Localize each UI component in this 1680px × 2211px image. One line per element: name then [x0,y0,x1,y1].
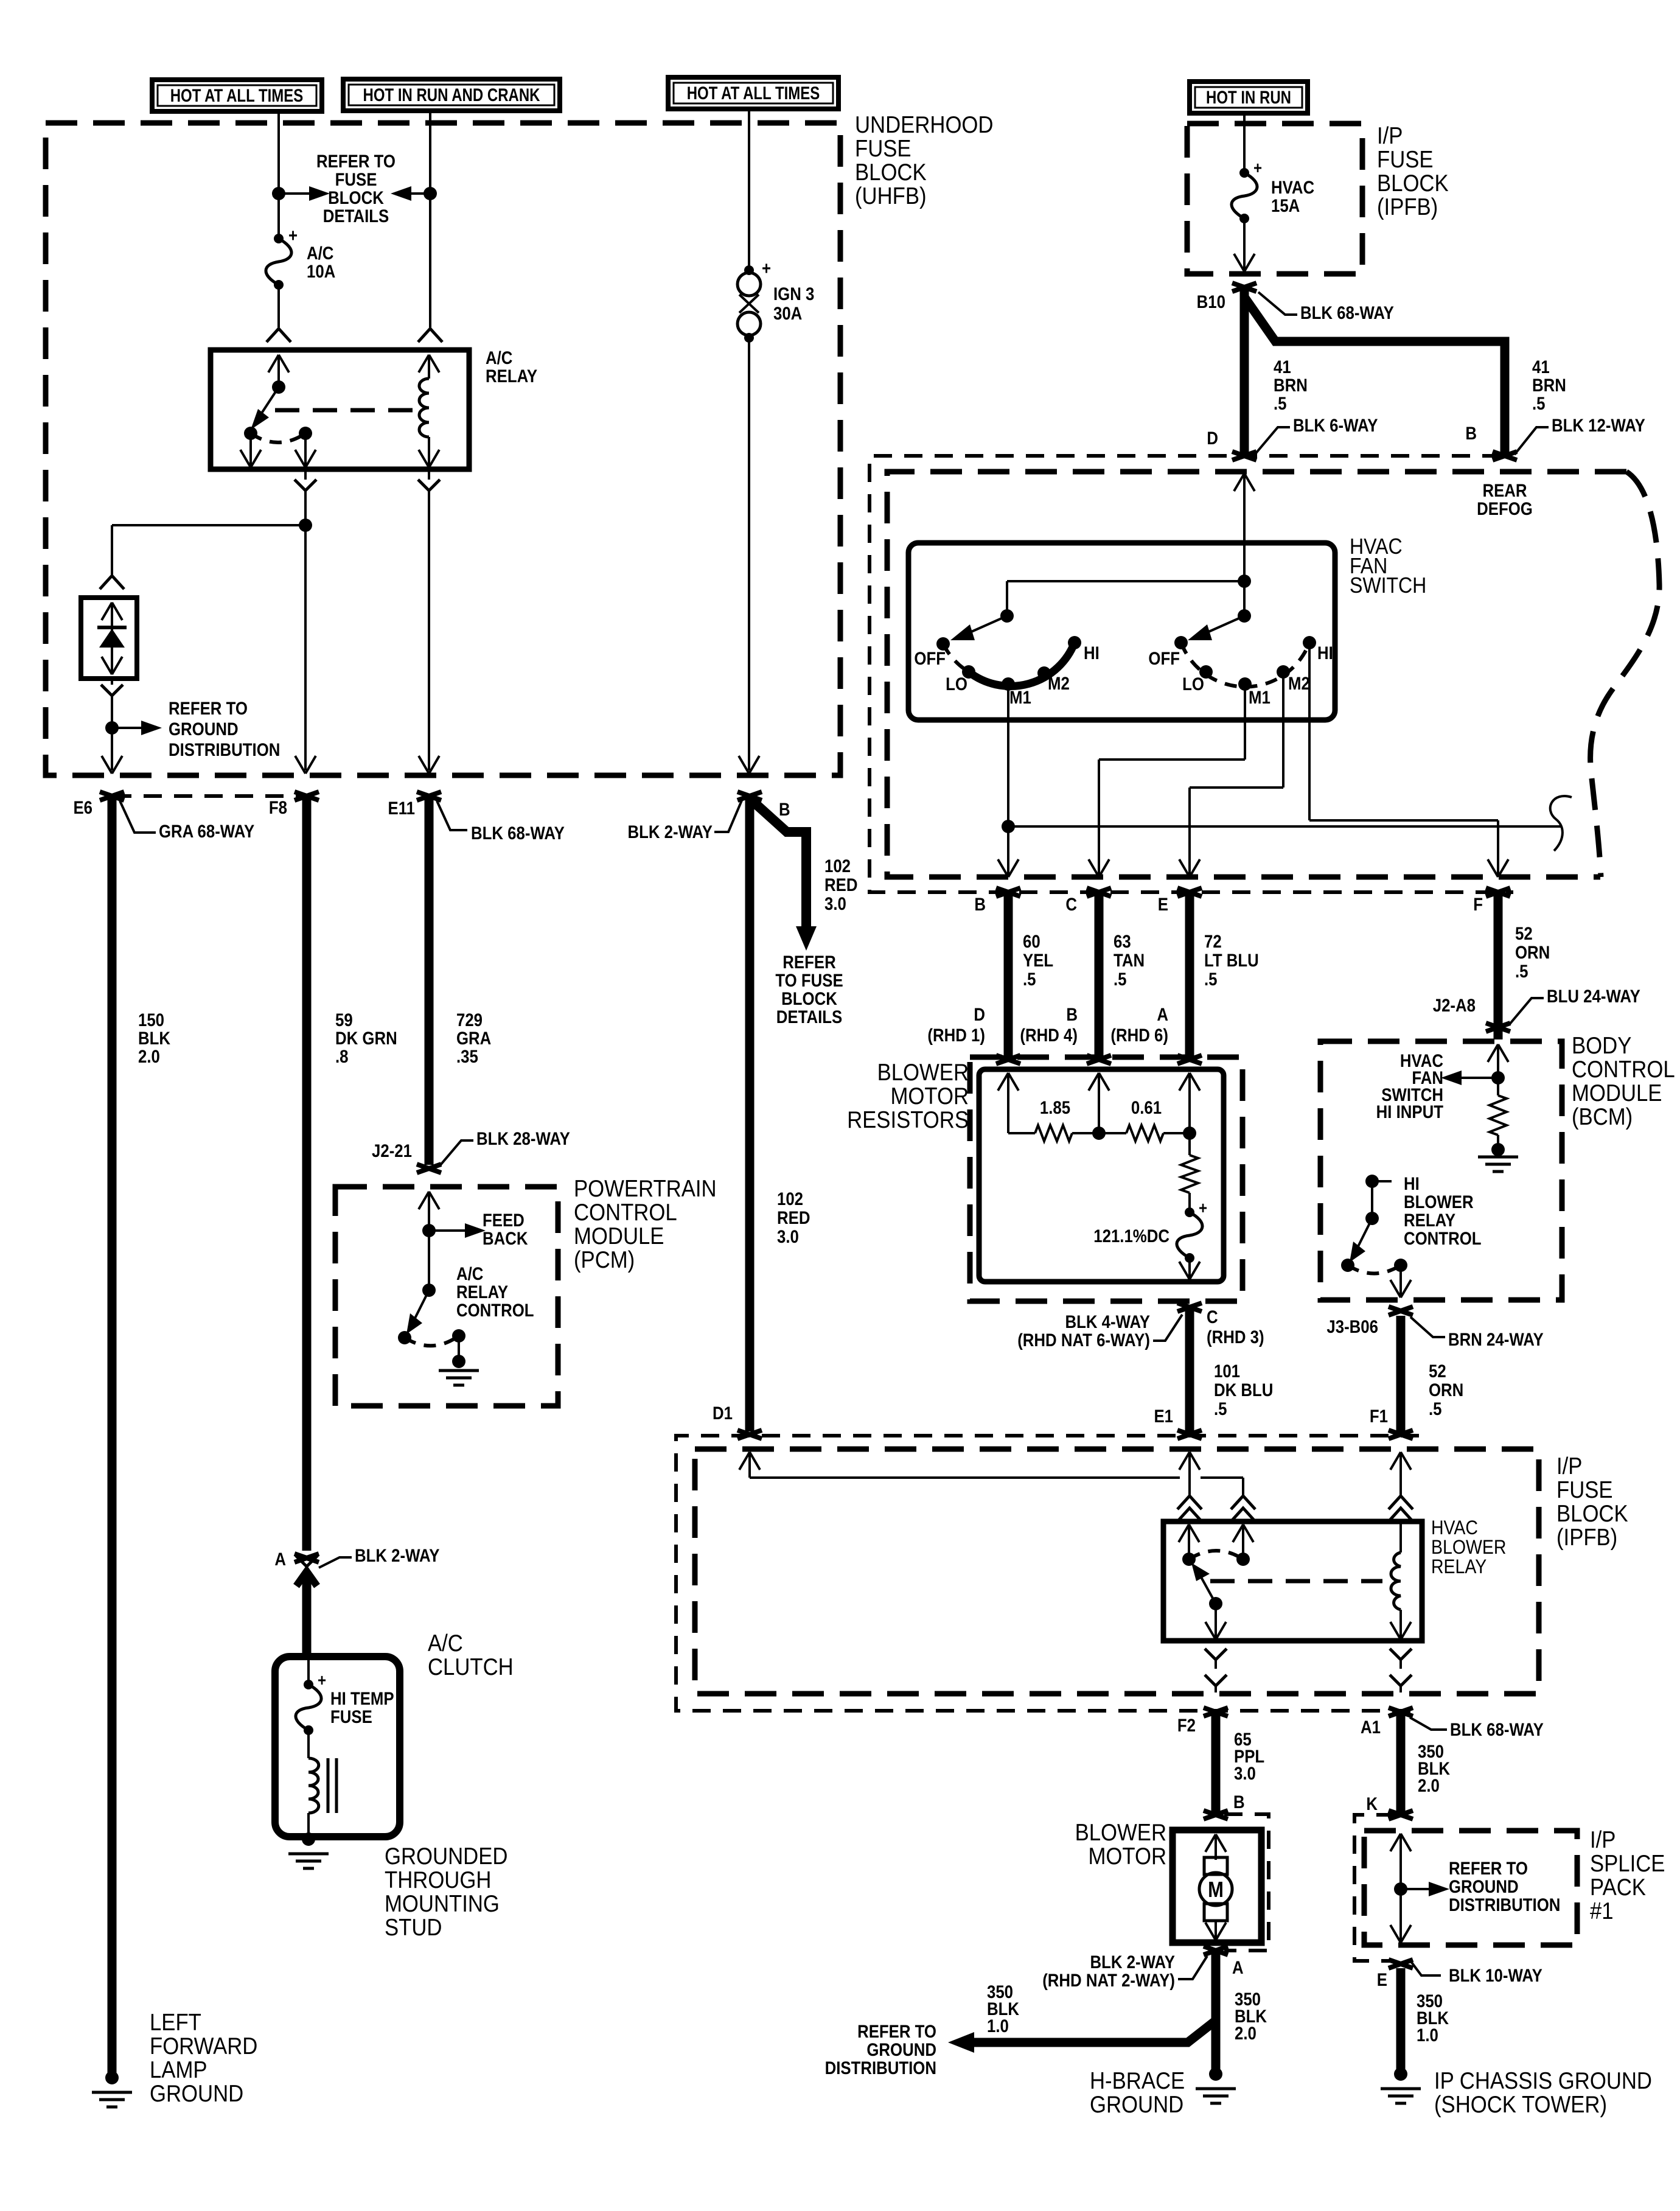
svg-text:52: 52 [1515,923,1533,943]
svg-text:.5: .5 [1214,1399,1227,1419]
svg-text:CONTROL: CONTROL [456,1300,534,1320]
svg-text:2.0: 2.0 [138,1046,160,1066]
svg-text:(RHD NAT 2-WAY): (RHD NAT 2-WAY) [1042,1970,1175,1990]
svg-text:CONTROL: CONTROL [1572,1056,1675,1082]
svg-text:BLK 12-WAY: BLK 12-WAY [1552,415,1645,435]
svg-text:LEFT: LEFT [150,2009,201,2035]
svg-text:E: E [1158,894,1168,914]
svg-text:150: 150 [138,1010,164,1030]
svg-text:(RHD NAT 6-WAY): (RHD NAT 6-WAY) [1017,1330,1150,1350]
svg-text:GROUND: GROUND [150,2080,243,2106]
svg-text:.35: .35 [456,1046,478,1066]
svg-text:+: + [318,1670,326,1689]
svg-text:(SHOCK TOWER): (SHOCK TOWER) [1434,2091,1607,2117]
svg-text:I/P: I/P [1556,1453,1582,1479]
svg-text:ORN: ORN [1429,1380,1463,1400]
svg-text:GROUND: GROUND [1449,1876,1519,1896]
svg-text:MOTOR: MOTOR [890,1083,969,1109]
svg-text:52: 52 [1429,1361,1446,1381]
svg-text:M: M [1208,1878,1224,1902]
svg-text:M2: M2 [1288,673,1310,693]
svg-text:(RHD 1): (RHD 1) [927,1025,985,1045]
svg-text:DISTRIBUTION: DISTRIBUTION [169,739,280,760]
svg-text:GROUND: GROUND [169,719,239,739]
svg-text:41: 41 [1274,357,1291,377]
svg-text:BLK 68-WAY: BLK 68-WAY [1450,1719,1544,1739]
svg-text:FUSE: FUSE [855,135,911,161]
svg-text:FUSE: FUSE [335,169,377,189]
svg-text:102: 102 [824,856,851,876]
svg-text:UNDERHOOD: UNDERHOOD [855,111,993,138]
svg-text:PACK: PACK [1590,1874,1646,1900]
svg-text:1.0: 1.0 [1417,2025,1438,2045]
svg-text:B: B [779,799,790,819]
svg-text:.5: .5 [1204,969,1218,989]
svg-text:D: D [1207,428,1218,448]
svg-text:E11: E11 [388,798,415,818]
svg-text:M1: M1 [1009,687,1031,707]
svg-text:1.0: 1.0 [987,2016,1009,2036]
svg-text:A: A [1157,1004,1168,1024]
svg-text:72: 72 [1204,931,1222,951]
svg-text:E6: E6 [73,797,92,817]
svg-text:LAMP: LAMP [150,2056,207,2083]
svg-text:59: 59 [335,1010,353,1030]
svg-text:K: K [1366,1794,1378,1814]
svg-text:H-BRACE: H-BRACE [1090,2067,1185,2094]
svg-text:(UHFB): (UHFB) [855,183,927,209]
svg-text:HI INPUT: HI INPUT [1376,1102,1443,1122]
svg-text:RED: RED [824,875,857,895]
svg-text:ORN: ORN [1515,942,1550,962]
svg-text:HI: HI [1404,1173,1420,1193]
svg-text:BLOCK: BLOCK [781,988,837,1008]
svg-text:101: 101 [1214,1361,1240,1381]
svg-text:M1: M1 [1249,687,1270,707]
svg-text:BLOCK: BLOCK [1556,1500,1628,1526]
svg-text:F2: F2 [1177,1715,1196,1735]
svg-text:BLK 68-WAY: BLK 68-WAY [471,823,565,843]
svg-text:BLK 10-WAY: BLK 10-WAY [1449,1965,1542,1985]
svg-text:B: B [1066,1004,1078,1024]
svg-text:BRN 24-WAY: BRN 24-WAY [1448,1329,1544,1349]
svg-text:(BCM): (BCM) [1572,1103,1633,1130]
svg-text:.5: .5 [1114,969,1127,989]
svg-text:F1: F1 [1370,1406,1388,1426]
svg-text:SWITCH: SWITCH [1350,573,1426,598]
svg-text:B: B [1233,1792,1245,1812]
svg-text:REFER TO: REFER TO [1449,1858,1528,1878]
svg-text:(IPFB): (IPFB) [1556,1524,1617,1550]
svg-text:E1: E1 [1154,1406,1173,1426]
svg-text:BLK: BLK [138,1028,170,1048]
svg-text:DETAILS: DETAILS [323,206,389,226]
svg-text:.5: .5 [1429,1399,1442,1419]
svg-text:.5: .5 [1515,961,1528,981]
svg-text:B: B [974,894,986,914]
svg-text:A: A [1232,1957,1244,1977]
svg-text:10A: 10A [307,261,335,281]
svg-text:C: C [1207,1307,1218,1327]
svg-text:LO: LO [1182,674,1204,694]
svg-text:BLOCK: BLOCK [1377,170,1449,196]
svg-text:+: + [762,258,771,278]
svg-text:CONTROL: CONTROL [1404,1228,1482,1248]
svg-text:#1: #1 [1590,1898,1614,1924]
svg-text:729: 729 [456,1010,483,1030]
svg-text:A/C: A/C [456,1263,483,1284]
svg-text:BLOCK: BLOCK [855,159,927,185]
svg-text:GROUNDED: GROUNDED [385,1843,507,1869]
svg-text:J2-21: J2-21 [372,1140,412,1161]
svg-text:E: E [1377,1969,1387,1989]
svg-text:F: F [1473,894,1483,914]
svg-text:GRA 68-WAY: GRA 68-WAY [159,821,254,841]
svg-text:A/C: A/C [486,348,512,368]
svg-text:30A: 30A [773,303,802,323]
svg-text:63: 63 [1114,931,1131,951]
svg-text:HOT IN RUN AND CRANK: HOT IN RUN AND CRANK [363,84,540,105]
svg-text:A/C: A/C [307,243,333,263]
svg-text:BLK 4-WAY: BLK 4-WAY [1065,1312,1151,1332]
svg-text:BLOWER: BLOWER [1431,1537,1506,1559]
svg-text:D: D [974,1004,985,1024]
svg-text:60: 60 [1023,931,1040,951]
svg-text:RELAY: RELAY [1404,1210,1455,1230]
svg-text:3.0: 3.0 [824,893,846,913]
svg-text:+: + [1199,1198,1207,1217]
svg-text:RELAY: RELAY [1431,1557,1487,1578]
svg-text:C: C [1065,894,1077,914]
svg-text:OFF: OFF [1148,648,1180,668]
svg-text:GRA: GRA [456,1028,491,1048]
svg-text:BLK 28-WAY: BLK 28-WAY [476,1128,570,1148]
svg-text:+: + [1253,158,1262,177]
svg-text:BLK 2-WAY: BLK 2-WAY [628,822,713,842]
svg-text:DETAILS: DETAILS [776,1007,842,1027]
svg-text:BLOWER: BLOWER [1075,1819,1166,1845]
svg-text:15A: 15A [1271,195,1300,215]
svg-text:YEL: YEL [1023,950,1053,970]
svg-text:I/P: I/P [1590,1826,1616,1853]
svg-text:DEFOG: DEFOG [1477,498,1533,519]
svg-text:BLU 24-WAY: BLU 24-WAY [1547,986,1640,1006]
svg-text:(RHD 3): (RHD 3) [1207,1327,1264,1347]
svg-text:BLK 2-WAY: BLK 2-WAY [355,1545,440,1565]
svg-text:IGN 3: IGN 3 [773,284,814,304]
svg-text:FORWARD: FORWARD [150,2033,257,2059]
svg-text:BODY: BODY [1572,1032,1631,1058]
svg-text:B: B [1465,423,1477,443]
svg-text:RELAY: RELAY [486,366,537,386]
svg-text:HOT AT ALL TIMES: HOT AT ALL TIMES [687,82,820,103]
svg-text:BLK 6-WAY: BLK 6-WAY [1293,415,1378,435]
svg-text:.5: .5 [1532,393,1546,413]
svg-text:POWERTRAIN: POWERTRAIN [574,1175,717,1201]
svg-text:DK GRN: DK GRN [335,1028,397,1048]
svg-text:2.0: 2.0 [1235,2023,1257,2043]
svg-text:102: 102 [777,1189,803,1209]
svg-text:M2: M2 [1048,673,1070,693]
svg-text:STUD: STUD [385,1914,442,1940]
svg-text:MOTOR: MOTOR [1088,1843,1166,1869]
svg-text:J3-B06: J3-B06 [1326,1316,1378,1336]
svg-text:REFER: REFER [782,952,835,972]
svg-text:REFER TO: REFER TO [169,698,248,718]
svg-text:HI: HI [1084,643,1100,663]
svg-text:BLOWER: BLOWER [877,1059,969,1085]
svg-text:OFF: OFF [914,648,946,668]
svg-text:F8: F8 [269,797,287,817]
svg-text:TO FUSE: TO FUSE [775,970,843,990]
svg-text:MODULE: MODULE [574,1223,664,1249]
svg-text:RELAY: RELAY [456,1282,508,1302]
svg-text:REFER TO: REFER TO [857,2021,936,2041]
svg-text:SPLICE: SPLICE [1590,1850,1665,1876]
svg-text:J2-A8: J2-A8 [1433,995,1476,1015]
svg-text:BLK 2-WAY: BLK 2-WAY [1090,1952,1176,1972]
svg-text:DISTRIBUTION: DISTRIBUTION [1449,1895,1560,1915]
svg-text:HOT IN RUN: HOT IN RUN [1206,86,1291,107]
svg-text:RESISTORS: RESISTORS [847,1106,969,1133]
svg-text:HVAC: HVAC [1431,1518,1478,1539]
svg-text:BRN: BRN [1274,375,1308,395]
svg-text:BLOWER: BLOWER [1404,1192,1474,1212]
svg-text:A: A [274,1549,286,1569]
svg-text:B10: B10 [1197,292,1225,312]
svg-text:DK BLU: DK BLU [1214,1380,1273,1400]
svg-text:RED: RED [777,1207,810,1228]
svg-text:IP CHASSIS GROUND: IP CHASSIS GROUND [1434,2067,1652,2094]
svg-text:BRN: BRN [1532,375,1566,395]
svg-text:DISTRIBUTION: DISTRIBUTION [825,2058,936,2078]
svg-text:FUSE: FUSE [1377,146,1434,172]
svg-text:121.1%DC: 121.1%DC [1093,1226,1169,1246]
svg-text:.8: .8 [335,1046,349,1066]
svg-text:2.0: 2.0 [1418,1775,1440,1795]
svg-text:41: 41 [1532,357,1550,377]
svg-text:.5: .5 [1023,969,1036,989]
svg-text:MOUNTING: MOUNTING [385,1890,500,1916]
svg-text:BLOCK: BLOCK [328,187,384,208]
svg-text:LO: LO [946,674,967,694]
svg-text:HI: HI [1317,643,1333,663]
svg-text:HVAC: HVAC [1271,177,1314,197]
svg-text:HOT AT ALL TIMES: HOT AT ALL TIMES [170,85,304,105]
svg-text:A1: A1 [1361,1717,1381,1737]
svg-text:REFER TO: REFER TO [316,151,396,171]
svg-text:BLK 68-WAY: BLK 68-WAY [1300,302,1394,323]
svg-text:3.0: 3.0 [1234,1763,1256,1783]
svg-text:GROUND: GROUND [866,2039,936,2059]
svg-text:(RHD 6): (RHD 6) [1110,1025,1168,1045]
svg-text:CONTROL: CONTROL [574,1199,677,1225]
svg-text:A/C: A/C [428,1630,463,1656]
svg-text:(RHD 4): (RHD 4) [1020,1025,1078,1045]
svg-text:.5: .5 [1274,393,1287,413]
svg-text:I/P: I/P [1377,122,1403,148]
svg-text:REAR: REAR [1482,480,1527,500]
svg-text:D1: D1 [713,1403,733,1423]
svg-text:HI TEMP: HI TEMP [330,1688,394,1708]
svg-text:(PCM): (PCM) [574,1246,635,1273]
svg-text:GROUND: GROUND [1090,2091,1183,2117]
svg-text:BACK: BACK [483,1228,528,1248]
svg-text:FUSE: FUSE [1556,1476,1613,1503]
svg-text:FEED: FEED [483,1210,525,1230]
svg-text:LT BLU: LT BLU [1204,950,1259,970]
svg-text:THROUGH: THROUGH [385,1867,491,1893]
svg-text:FUSE: FUSE [330,1706,372,1727]
svg-text:1.85: 1.85 [1040,1097,1070,1117]
svg-text:MODULE: MODULE [1572,1080,1662,1106]
svg-text:0.61: 0.61 [1131,1097,1162,1117]
svg-text:(IPFB): (IPFB) [1377,194,1438,220]
svg-text:3.0: 3.0 [777,1226,799,1246]
svg-text:CLUTCH: CLUTCH [428,1654,514,1680]
svg-text:TAN: TAN [1114,950,1145,970]
svg-text:+: + [288,225,298,245]
